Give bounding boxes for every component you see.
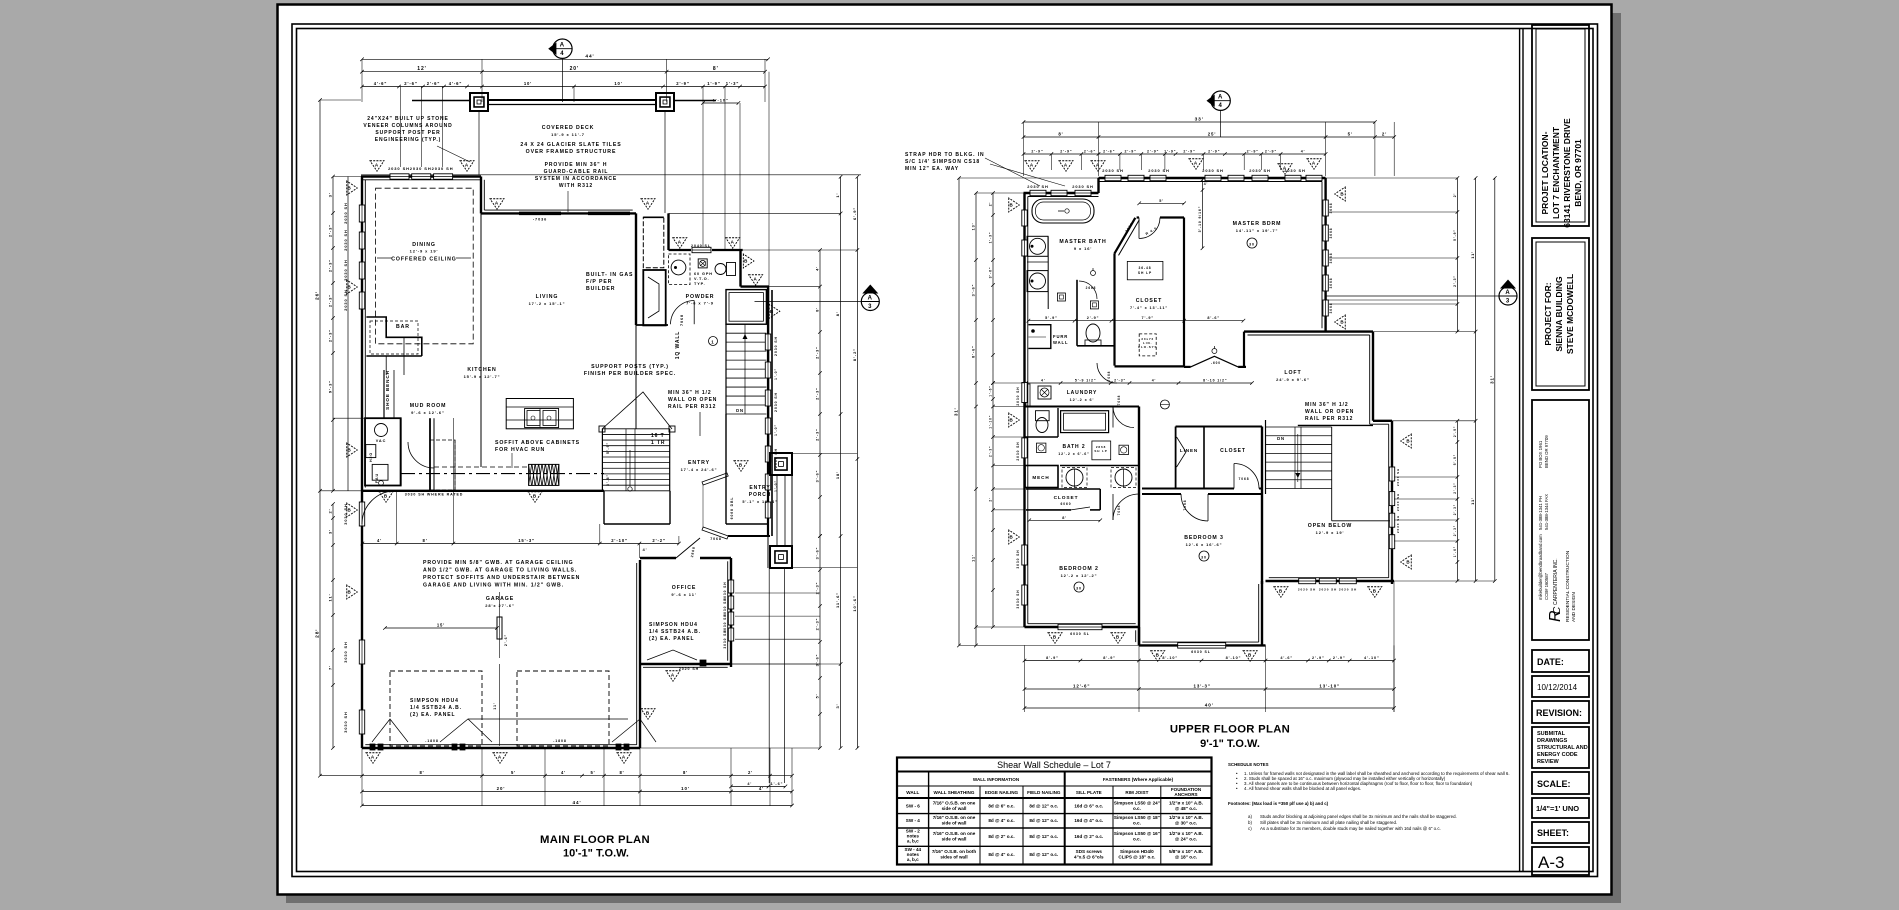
svg-text:o.c.: o.c. bbox=[1133, 821, 1141, 826]
svg-text:GUARD-CABLE RAIL: GUARD-CABLE RAIL bbox=[544, 169, 609, 175]
svg-text:10': 10' bbox=[524, 81, 532, 86]
svg-text:4': 4' bbox=[759, 786, 764, 791]
svg-text:3030 SH: 3030 SH bbox=[1016, 589, 1020, 608]
svg-text:A: A bbox=[498, 754, 502, 759]
svg-text:4': 4' bbox=[1041, 379, 1046, 383]
svg-text:SIMPSON HDU4: SIMPSON HDU4 bbox=[649, 622, 698, 628]
svg-text:b): b) bbox=[1248, 820, 1252, 825]
svg-text:DRAWINGS: DRAWINGS bbox=[1537, 738, 1568, 744]
svg-text:24 X 24 GLACIER SLATE TILES: 24 X 24 GLACIER SLATE TILES bbox=[520, 142, 621, 148]
svg-text:2'-3": 2'-3" bbox=[1453, 525, 1457, 536]
svg-text:13'-3": 13'-3" bbox=[1194, 684, 1211, 689]
svg-text:3030 SH: 3030 SH bbox=[343, 711, 348, 732]
svg-text:SYSTEM IN ACCORDANCE: SYSTEM IN ACCORDANCE bbox=[535, 176, 617, 182]
svg-text:c): c) bbox=[1248, 826, 1252, 831]
svg-text:30: 30 bbox=[1249, 243, 1255, 247]
svg-text:3: 3 bbox=[868, 304, 872, 310]
svg-text:1/4 SSTB24 A.B.: 1/4 SSTB24 A.B. bbox=[649, 629, 701, 635]
svg-text:16 T: 16 T bbox=[651, 433, 665, 439]
svg-text:GARAGE: GARAGE bbox=[486, 596, 514, 602]
svg-text:7/16" O.S.B. on both: 7/16" O.S.B. on both bbox=[932, 849, 976, 854]
svg-text:ANCHORS: ANCHORS bbox=[1174, 792, 1197, 797]
svg-text:60 GPH: 60 GPH bbox=[694, 272, 713, 276]
svg-text:18': 18' bbox=[835, 471, 840, 479]
svg-text:A: A bbox=[1064, 162, 1068, 167]
svg-text:8': 8' bbox=[835, 311, 840, 316]
svg-text:FAU: FAU bbox=[375, 473, 379, 483]
svg-text:10'-6": 10'-6" bbox=[852, 595, 857, 611]
svg-text:side of wall: side of wall bbox=[942, 837, 967, 842]
svg-text:3'-10 9/16": 3'-10 9/16" bbox=[1198, 206, 1202, 233]
svg-text:3030 SH: 3030 SH bbox=[723, 629, 727, 648]
svg-text:UPPER FLOOR PLAN: UPPER FLOOR PLAN bbox=[1170, 724, 1290, 736]
svg-text:side of wall: side of wall bbox=[942, 821, 967, 826]
svg-text:1Q WALL: 1Q WALL bbox=[675, 331, 681, 360]
svg-text:MIN 36" H 1/2: MIN 36" H 1/2 bbox=[1305, 402, 1349, 408]
svg-text:3': 3' bbox=[328, 192, 333, 197]
svg-text:5'-9": 5'-9" bbox=[606, 442, 610, 454]
svg-text:BEDROOM 2: BEDROOM 2 bbox=[1059, 566, 1099, 572]
svg-text:SUPPORT POSTS (TYP.): SUPPORT POSTS (TYP.) bbox=[591, 364, 669, 370]
svg-text:o.c.: o.c. bbox=[1133, 806, 1141, 811]
svg-text:7'-9": 7'-9" bbox=[1141, 316, 1154, 320]
svg-text:CLOSET: CLOSET bbox=[1136, 298, 1162, 304]
svg-text:PO BOX 1961: PO BOX 1961 bbox=[1538, 440, 1543, 468]
svg-text:SCHEDULE NOTES: SCHEDULE NOTES bbox=[1228, 762, 1269, 767]
svg-text:8d @ 12" o.c.: 8d @ 12" o.c. bbox=[1029, 818, 1058, 823]
svg-text:C: C bbox=[1552, 606, 1563, 614]
svg-text:24'-9 x 9'-6": 24'-9 x 9'-6" bbox=[1276, 377, 1310, 382]
svg-text:8'-2": 8'-2" bbox=[852, 348, 857, 361]
svg-text:4: 4 bbox=[1218, 103, 1222, 109]
svg-text:4': 4' bbox=[747, 782, 752, 786]
svg-text:9 x 16': 9 x 16' bbox=[1074, 246, 1092, 251]
svg-text:2030 SH: 2030 SH bbox=[1202, 168, 1223, 173]
svg-text:MASTER BATH: MASTER BATH bbox=[1059, 239, 1106, 245]
svg-text:A: A bbox=[678, 239, 682, 244]
svg-text:6030 SL: 6030 SL bbox=[1070, 632, 1090, 636]
svg-text:541-388-1344 FAX: 541-388-1344 FAX bbox=[1544, 494, 1549, 530]
svg-text:8'-9": 8'-9" bbox=[1103, 656, 1116, 660]
svg-text:FASTENERS (Where Applicable): FASTENERS (Where Applicable) bbox=[1103, 777, 1174, 782]
svg-text:2020 SH: 2020 SH bbox=[1319, 588, 1337, 592]
svg-text:FURR: FURR bbox=[1053, 334, 1068, 339]
svg-text:-1808: -1808 bbox=[553, 739, 567, 743]
svg-text:2'-9": 2'-9" bbox=[1453, 426, 1457, 437]
svg-text:SIMPSON HDU4: SIMPSON HDU4 bbox=[410, 698, 459, 704]
svg-text:2030 SH: 2030 SH bbox=[1396, 515, 1400, 533]
svg-text:8d @ 12" o.c.: 8d @ 12" o.c. bbox=[1029, 834, 1058, 839]
svg-text:7'-4" x 13'-11": 7'-4" x 13'-11" bbox=[1130, 306, 1168, 310]
svg-text:FOR HVAC RUN: FOR HVAC RUN bbox=[495, 447, 545, 453]
svg-text:30: 30 bbox=[1201, 556, 1207, 560]
svg-text:5'-9": 5'-9" bbox=[1453, 454, 1457, 465]
svg-text:WALL: WALL bbox=[1053, 340, 1068, 345]
svg-text:LOT 7 ENCHANTMENT: LOT 7 ENCHANTMENT bbox=[1551, 126, 1561, 219]
svg-text:MASTER BDRM: MASTER BDRM bbox=[1233, 221, 1282, 227]
svg-text:8d @ 4" o.c.: 8d @ 4" o.c. bbox=[988, 852, 1014, 857]
svg-text:OPEN BELOW: OPEN BELOW bbox=[1308, 523, 1352, 529]
svg-text:2'-9": 2'-9" bbox=[1183, 150, 1195, 154]
svg-text:44': 44' bbox=[585, 54, 594, 60]
svg-text:3: 3 bbox=[1506, 299, 1510, 305]
svg-text:REVISION:: REVISION: bbox=[1536, 708, 1582, 718]
svg-text:KITCHEN: KITCHEN bbox=[467, 367, 496, 373]
svg-text:SH LP: SH LP bbox=[1094, 449, 1107, 453]
svg-text:ENTRY: ENTRY bbox=[749, 485, 770, 491]
svg-text:8d @ 6" o.c.: 8d @ 6" o.c. bbox=[988, 804, 1014, 809]
svg-text:B: B bbox=[1340, 192, 1344, 197]
svg-text:SUPPORT POST PER: SUPPORT POST PER bbox=[375, 130, 440, 136]
svg-text:7068: 7068 bbox=[1117, 395, 1121, 406]
svg-text:A: A bbox=[868, 296, 873, 302]
svg-text:MIN 36" H 1/2: MIN 36" H 1/2 bbox=[668, 390, 712, 396]
svg-text:DINING: DINING bbox=[412, 242, 436, 248]
svg-text:BUILDER: BUILDER bbox=[586, 286, 615, 292]
svg-text:8'-6": 8'-6" bbox=[972, 345, 976, 358]
svg-text:10': 10' bbox=[614, 81, 622, 86]
svg-text:2': 2' bbox=[1453, 193, 1457, 198]
svg-text:7068: 7068 bbox=[1183, 500, 1187, 511]
svg-text:2'-3": 2'-3" bbox=[1114, 379, 1126, 383]
svg-text:B: B bbox=[1009, 418, 1013, 423]
svg-text:A: A bbox=[375, 162, 379, 167]
svg-text:@ 24" o.c.: @ 24" o.c. bbox=[1175, 837, 1197, 842]
svg-text:10'-1" T.O.W.: 10'-1" T.O.W. bbox=[563, 848, 629, 860]
svg-text:20': 20' bbox=[497, 786, 506, 791]
svg-text:2668: 2668 bbox=[1086, 286, 1097, 290]
svg-text:1': 1' bbox=[835, 193, 840, 198]
svg-text:REVIEW: REVIEW bbox=[1537, 759, 1560, 765]
svg-text:4': 4' bbox=[377, 538, 382, 543]
svg-text:5'-9": 5'-9" bbox=[1453, 229, 1457, 241]
svg-text:7/16" O.S.B. on one: 7/16" O.S.B. on one bbox=[933, 801, 976, 806]
svg-text:MIN 12" EA. WAY: MIN 12" EA. WAY bbox=[905, 166, 959, 172]
svg-text:Simpson LS50 @ 24": Simpson LS50 @ 24" bbox=[1114, 801, 1160, 806]
svg-text:5'-9 1/2": 5'-9 1/2" bbox=[1075, 379, 1097, 383]
svg-text:A: A bbox=[1283, 165, 1287, 170]
svg-text:4': 4' bbox=[1152, 379, 1157, 383]
svg-text:BEDROOM 3: BEDROOM 3 bbox=[1184, 535, 1224, 541]
svg-text:3068: 3068 bbox=[1329, 278, 1333, 289]
svg-text:7': 7' bbox=[328, 665, 333, 670]
svg-text:a, b,c: a, b,c bbox=[907, 857, 919, 862]
svg-text:63141 RIVERSTONE DRIVE: 63141 RIVERSTONE DRIVE bbox=[1562, 118, 1572, 228]
svg-text:B: B bbox=[1116, 634, 1120, 639]
svg-text:1: 1 bbox=[711, 340, 714, 345]
svg-text:A: A bbox=[731, 239, 735, 244]
svg-text:26': 26' bbox=[315, 291, 321, 300]
svg-text:Simpson LS50 @ 16": Simpson LS50 @ 16" bbox=[1114, 831, 1160, 836]
svg-text:@ 48" o.c.: @ 48" o.c. bbox=[1175, 806, 1197, 811]
svg-text:8'-6": 8'-6" bbox=[1207, 316, 1220, 320]
svg-text:15'-9 x 12'-7": 15'-9 x 12'-7" bbox=[464, 374, 501, 379]
svg-text:PROVIDE MIN 5/8" GWB. AT GARAG: PROVIDE MIN 5/8" GWB. AT GARAGE CEILING bbox=[423, 560, 574, 566]
svg-text:2'-9": 2'-9" bbox=[1333, 656, 1346, 660]
svg-text:8d @ 12" o.c.: 8d @ 12" o.c. bbox=[1029, 804, 1058, 809]
svg-text:8': 8' bbox=[816, 307, 820, 312]
svg-text:2'-9": 2'-9" bbox=[1147, 150, 1159, 154]
svg-text:B: B bbox=[1373, 588, 1377, 593]
svg-text:SH LP: SH LP bbox=[1138, 271, 1152, 275]
svg-text:8d @ 12" o.c.: 8d @ 12" o.c. bbox=[1029, 852, 1058, 857]
svg-text:2030 SH: 2030 SH bbox=[343, 229, 348, 250]
svg-text:7068: 7068 bbox=[1117, 505, 1121, 516]
svg-text:B: B bbox=[1009, 535, 1013, 540]
svg-text:Studs and/or blocking at adjoi: Studs and/or blocking at adjoining panel… bbox=[1260, 814, 1457, 819]
svg-text:2'-3": 2'-3" bbox=[1453, 275, 1457, 287]
svg-text:(2) EA. PANEL: (2) EA. PANEL bbox=[649, 636, 695, 642]
svg-text:side of wall: side of wall bbox=[942, 806, 967, 811]
svg-text:16d @ 6" o.c.: 16d @ 6" o.c. bbox=[1074, 804, 1103, 809]
svg-text:8'-10": 8'-10" bbox=[1162, 656, 1178, 660]
svg-text:BATH 2: BATH 2 bbox=[1062, 444, 1085, 450]
svg-text:7/16" O.S.B. on one: 7/16" O.S.B. on one bbox=[933, 831, 976, 836]
svg-text:11': 11' bbox=[1470, 497, 1475, 505]
svg-text:12': 12' bbox=[417, 66, 426, 72]
svg-text:ENERGY CODE: ENERGY CODE bbox=[1537, 752, 1578, 758]
svg-text:CLIPS @ 18" o.c.: CLIPS @ 18" o.c. bbox=[1118, 855, 1155, 860]
svg-text:AND DESIGN: AND DESIGN bbox=[1571, 592, 1577, 622]
svg-text:3030 SH: 3030 SH bbox=[343, 503, 348, 524]
svg-text:3'-6": 3'-6" bbox=[816, 470, 820, 483]
svg-text:2'-9": 2'-9" bbox=[676, 81, 690, 86]
svg-text:3030 SH: 3030 SH bbox=[1016, 549, 1020, 568]
svg-text:FINISH PER BUILDER SPEC.: FINISH PER BUILDER SPEC. bbox=[584, 371, 676, 377]
svg-text:H2O: H2O bbox=[369, 452, 373, 462]
svg-text:15'-9 x 11'-7: 15'-9 x 11'-7 bbox=[551, 132, 585, 137]
svg-text:FIELD NAILING: FIELD NAILING bbox=[1027, 790, 1061, 795]
svg-text:12'-2 x 12'-2": 12'-2 x 12'-2" bbox=[1061, 573, 1098, 578]
svg-text:2'-2": 2'-2" bbox=[652, 538, 666, 543]
svg-text:2030 SH: 2030 SH bbox=[1249, 168, 1270, 173]
svg-text:BEND, OR 97701: BEND, OR 97701 bbox=[1573, 139, 1583, 207]
svg-text:COVERED DECK: COVERED DECK bbox=[542, 125, 595, 131]
svg-text:8'-9": 8'-9" bbox=[1046, 656, 1059, 660]
svg-text:B: B bbox=[384, 493, 388, 498]
svg-text:2'-6": 2'-6" bbox=[504, 634, 508, 646]
svg-text:2': 2' bbox=[328, 509, 333, 514]
svg-text:SUBMITAL: SUBMITAL bbox=[1537, 731, 1566, 737]
svg-text:9'-6 x 11': 9'-6 x 11' bbox=[671, 592, 696, 597]
svg-text:11'-6": 11'-6" bbox=[835, 592, 840, 608]
svg-text:SHEET:: SHEET: bbox=[1537, 828, 1569, 838]
svg-text:5/8"ø x 10" A.B.: 5/8"ø x 10" A.B. bbox=[1169, 849, 1203, 854]
svg-text:8'-10": 8'-10" bbox=[1226, 656, 1242, 660]
svg-text:4': 4' bbox=[1301, 150, 1306, 154]
svg-text:B: B bbox=[646, 710, 650, 715]
svg-text:o.c.: o.c. bbox=[1133, 837, 1141, 842]
svg-text:2030 SH: 2030 SH bbox=[432, 166, 454, 171]
svg-text:7068: 7068 bbox=[680, 314, 684, 326]
svg-text:2'-3": 2'-3" bbox=[328, 329, 333, 342]
svg-text:A: A bbox=[754, 276, 758, 281]
svg-text:PROJET LOCATION-: PROJET LOCATION- bbox=[1540, 131, 1550, 214]
svg-text:B: B bbox=[1279, 588, 1283, 593]
svg-text:ENTRY: ENTRY bbox=[688, 460, 710, 466]
svg-text:11': 11' bbox=[972, 554, 976, 562]
svg-text:10': 10' bbox=[681, 786, 690, 791]
svg-text:AND 1/2" GWB. AT GARAGE TO LIV: AND 1/2" GWB. AT GARAGE TO LIVING WALLS. bbox=[423, 568, 577, 574]
svg-text:1'-3": 1'-3" bbox=[726, 81, 740, 86]
svg-text:A: A bbox=[560, 43, 565, 49]
svg-text:10/12/2014: 10/12/2014 bbox=[1537, 683, 1578, 692]
svg-text:8d @ 2" o.c.: 8d @ 2" o.c. bbox=[988, 834, 1014, 839]
svg-text:17'-2 x 15'-1": 17'-2 x 15'-1" bbox=[529, 301, 566, 306]
svg-text:A: A bbox=[465, 162, 469, 167]
svg-text:2030 SH: 2030 SH bbox=[774, 336, 778, 356]
svg-text:4': 4' bbox=[1204, 182, 1209, 186]
svg-text:SDS screws: SDS screws bbox=[1076, 849, 1103, 854]
svg-text:As a substitute for 3x members: As a substitute for 3x members, double s… bbox=[1260, 826, 1441, 831]
svg-text:3'-6": 3'-6" bbox=[972, 284, 976, 297]
svg-text:WALL INFORMATION: WALL INFORMATION bbox=[973, 777, 1020, 782]
svg-text:A: A bbox=[1218, 95, 1223, 101]
svg-text:2'-3": 2'-3" bbox=[989, 446, 993, 457]
svg-text:6030 SL: 6030 SL bbox=[1191, 650, 1211, 654]
svg-text:1/4 SSTB24 A.B.: 1/4 SSTB24 A.B. bbox=[410, 705, 462, 711]
svg-text:SOFFIT ABOVE CABINETS: SOFFIT ABOVE CABINETS bbox=[495, 440, 580, 446]
svg-text:5': 5' bbox=[816, 694, 820, 699]
svg-text:Sill plates shall be 3x minimu: Sill plates shall be 3x minimum and all … bbox=[1260, 820, 1397, 825]
svg-text:11': 11' bbox=[493, 702, 497, 709]
svg-text:B: B bbox=[739, 462, 743, 467]
svg-text:CARPENTERIA INC.: CARPENTERIA INC. bbox=[1553, 558, 1559, 605]
svg-text:RAIL PER R312: RAIL PER R312 bbox=[1305, 416, 1353, 422]
svg-text:DN: DN bbox=[736, 408, 744, 413]
svg-text:-1808: -1808 bbox=[425, 739, 439, 743]
svg-text:LINEN: LINEN bbox=[1180, 448, 1198, 453]
svg-text:1 TR: 1 TR bbox=[651, 440, 665, 446]
svg-text:2'-3": 2'-3" bbox=[328, 259, 333, 272]
svg-text:MUD ROOM: MUD ROOM bbox=[410, 403, 447, 409]
svg-text:CLOSET: CLOSET bbox=[1054, 495, 1079, 501]
svg-text:A: A bbox=[371, 754, 375, 759]
svg-text:A: A bbox=[1096, 162, 1100, 167]
svg-text:13'-10": 13'-10" bbox=[1319, 684, 1340, 689]
svg-text:1'-0": 1'-0" bbox=[774, 424, 778, 436]
svg-text:7068: 7068 bbox=[1107, 371, 1111, 382]
svg-text:44': 44' bbox=[573, 800, 582, 805]
svg-text:3068: 3068 bbox=[1329, 228, 1333, 239]
svg-text:5'-1" x 10'-4": 5'-1" x 10'-4" bbox=[742, 500, 777, 504]
svg-text:DN: DN bbox=[1277, 436, 1285, 441]
svg-text:2030 SH: 2030 SH bbox=[1016, 441, 1020, 460]
svg-text:2030 SH: 2030 SH bbox=[774, 392, 778, 412]
svg-text:4'-6": 4'-6" bbox=[1280, 656, 1293, 660]
svg-text:3'-6": 3'-6" bbox=[606, 474, 610, 486]
svg-text:PROVIDE MIN 36" H: PROVIDE MIN 36" H bbox=[545, 162, 608, 168]
svg-text:2030 SH: 2030 SH bbox=[1027, 184, 1048, 189]
svg-text:12'-2 x 6': 12'-2 x 6' bbox=[1070, 398, 1095, 402]
svg-text:15'-3": 15'-3" bbox=[518, 538, 535, 543]
svg-text:B: B bbox=[1009, 203, 1013, 208]
svg-text:2': 2' bbox=[989, 497, 993, 501]
svg-text:2030 SH: 2030 SH bbox=[410, 166, 432, 171]
svg-text:B: B bbox=[347, 590, 351, 595]
svg-text:16d @ 2" o.c.: 16d @ 2" o.c. bbox=[1074, 834, 1103, 839]
svg-text:4: 4 bbox=[560, 51, 564, 57]
svg-text:2030 SH: 2030 SH bbox=[343, 289, 348, 310]
svg-text:2030 SH: 2030 SH bbox=[1072, 184, 1093, 189]
svg-text:B: B bbox=[1248, 652, 1252, 657]
svg-text:mikebuilder@bendbroadband.com: mikebuilder@bendbroadband.com bbox=[1538, 534, 1543, 600]
svg-text:2030 SH: 2030 SH bbox=[1148, 168, 1169, 173]
svg-text:2030 SH: 2030 SH bbox=[1396, 493, 1400, 511]
svg-text:SCALE:: SCALE: bbox=[1537, 779, 1571, 789]
svg-text:8': 8' bbox=[713, 66, 719, 72]
svg-text:2'-9": 2'-9" bbox=[1312, 656, 1325, 660]
svg-text:1'-6": 1'-6" bbox=[771, 782, 784, 786]
svg-text:Footnotes: (Max load is =350 p: Footnotes: (Max load is =350 plf use a) … bbox=[1228, 801, 1329, 806]
svg-text:CLO.SYS: CLO.SYS bbox=[1138, 345, 1157, 349]
svg-text:F/P PER: F/P PER bbox=[586, 279, 612, 285]
svg-text:2': 2' bbox=[748, 770, 753, 775]
svg-text:2'-3": 2'-3" bbox=[328, 294, 333, 307]
svg-text:CLOSET: CLOSET bbox=[1220, 448, 1246, 454]
svg-text:5': 5' bbox=[511, 770, 516, 775]
svg-text:3': 3' bbox=[328, 529, 333, 534]
svg-text:TYP.: TYP. bbox=[694, 282, 706, 286]
svg-text:SW - 6: SW - 6 bbox=[906, 804, 920, 809]
svg-text:2'-10": 2'-10" bbox=[611, 538, 628, 543]
svg-text:BAR: BAR bbox=[396, 324, 410, 330]
svg-text:8': 8' bbox=[1062, 516, 1067, 520]
svg-text:RIM JOIST: RIM JOIST bbox=[1125, 790, 1148, 795]
svg-text:3'-6": 3'-6" bbox=[989, 267, 993, 279]
svg-text:2030 SH: 2030 SH bbox=[388, 166, 410, 171]
svg-text:2': 2' bbox=[1382, 132, 1387, 137]
svg-text:B: B bbox=[533, 493, 537, 498]
svg-text:A: A bbox=[1194, 160, 1198, 165]
svg-text:B: B bbox=[1053, 634, 1057, 639]
svg-text:PROJECT FOR:: PROJECT FOR: bbox=[1543, 282, 1553, 345]
svg-text:2'-9": 2'-9" bbox=[1265, 150, 1277, 154]
svg-text:2'-3": 2'-3" bbox=[816, 387, 820, 400]
svg-text:2'-3": 2'-3" bbox=[1453, 482, 1457, 493]
svg-text:3'-6": 3'-6" bbox=[816, 547, 820, 560]
svg-text:3': 3' bbox=[835, 704, 840, 709]
svg-text:2'-9": 2'-9" bbox=[1060, 150, 1072, 154]
svg-text:A: A bbox=[1030, 162, 1034, 167]
svg-text:B: B bbox=[1406, 560, 1410, 565]
svg-text:1'-0": 1'-0" bbox=[774, 368, 778, 380]
svg-text:31': 31' bbox=[954, 407, 959, 416]
svg-text:GARAGE AND LIVING WITH MIN. 1/: GARAGE AND LIVING WITH MIN. 1/2" GWB. bbox=[423, 583, 564, 589]
svg-text:8': 8' bbox=[619, 770, 624, 775]
svg-text:A: A bbox=[1505, 290, 1510, 296]
svg-text:33': 33' bbox=[1195, 117, 1204, 123]
svg-text:VAC: VAC bbox=[376, 439, 386, 443]
svg-text:2'-3": 2'-3" bbox=[816, 346, 820, 359]
svg-text:28'x 27'-6": 28'x 27'-6" bbox=[485, 603, 515, 608]
svg-text:2'-6": 2'-6" bbox=[404, 81, 418, 86]
svg-text:2'-3": 2'-3" bbox=[816, 428, 820, 441]
svg-text:POWDER: POWDER bbox=[686, 294, 715, 300]
svg-text:B: B bbox=[1340, 320, 1344, 325]
svg-text:28': 28' bbox=[315, 629, 321, 638]
svg-text:-600: -600 bbox=[1211, 361, 1221, 365]
svg-text:SIENNA BUILDING: SIENNA BUILDING bbox=[1554, 276, 1564, 352]
svg-text:7068: 7068 bbox=[1239, 477, 1250, 481]
svg-text:2'-9": 2'-9" bbox=[1087, 316, 1100, 320]
svg-text:2'-6": 2'-6" bbox=[1084, 150, 1096, 154]
svg-text:2'-6": 2'-6" bbox=[1103, 150, 1115, 154]
svg-text:20': 20' bbox=[570, 66, 579, 72]
svg-text:1'-0": 1'-0" bbox=[774, 480, 778, 492]
svg-text:SILL PLATE: SILL PLATE bbox=[1076, 790, 1102, 795]
svg-text:MECH: MECH bbox=[1032, 475, 1049, 480]
